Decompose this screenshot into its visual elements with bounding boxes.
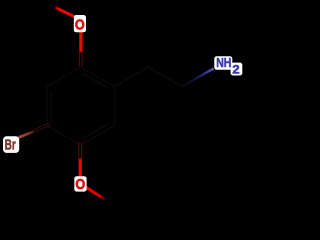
svg-text:O: O [75, 177, 85, 193]
bond O2-C5 dark carbon half outline [78, 142, 80, 160]
benzene ring C1-C6 [47, 67, 115, 145]
double bond inner line C5=C6 (left edge) [50, 91, 52, 122]
svg-text:2: 2 [232, 63, 240, 77]
double bond inner line C3=C4 (bottom-right edge) [82, 124, 109, 140]
bond O2-C5 bright half (bottom) [79, 159, 82, 177]
atom Br label box [3, 136, 19, 153]
bond O1-C2 bright half [79, 32, 82, 53]
bond O1-CH3 top methyl [55, 7, 75, 17]
double bond inner line C1=C2 (top-right edge) [82, 73, 109, 89]
svg-text:O: O [75, 17, 85, 33]
bond O1-C2 dark carbon half outline [78, 51, 80, 67]
wire CH2 chain bond ring-CH2 [114, 67, 148, 87]
svg-text:Br: Br [5, 138, 16, 154]
svg-text:NH: NH [216, 55, 231, 70]
atom O2 label box [74, 176, 86, 191]
bond Br-C4 dark carbon half outline [33, 125, 50, 133]
wire CH2-CH2 bond [148, 67, 182, 87]
bond O2-CH3 bottom methyl [86, 187, 105, 199]
bond CH2-NH2 (blue fade) [182, 68, 214, 86]
atom O1 label box [74, 15, 86, 32]
bond Br-C4 bright half [18, 132, 33, 138]
atom N label box [214, 56, 232, 70]
